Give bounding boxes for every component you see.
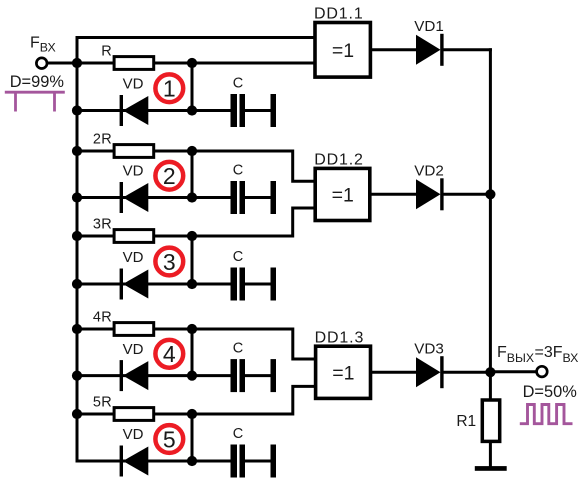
- svg-text:VD: VD: [123, 76, 144, 93]
- svg-text:1: 1: [163, 76, 176, 102]
- wire: capacitor row 3 right lead: [245, 283, 271, 286]
- terminator bar after capacitor row 4: [271, 359, 277, 392]
- diode VD row 3 (triangle): [123, 270, 148, 299]
- diode VD row 4 (cathode bar): [120, 360, 123, 391]
- diode VD row 5 (cathode bar): [120, 446, 123, 477]
- wire: row 1 resistor line from bus to junction: [77, 62, 194, 65]
- wire: vertical link x=192 row 4: [191, 329, 194, 376]
- svg-text:3: 3: [163, 249, 176, 275]
- svg-text:=3F: =3F: [535, 344, 563, 361]
- svg-text:F: F: [30, 35, 40, 52]
- stage number circle 2 (red): [155, 162, 183, 190]
- svg-text:VD: VD: [123, 163, 144, 180]
- node: junction dot on row 1 diode line: [187, 105, 197, 115]
- wire: DD1.3 output to VD3: [371, 371, 418, 374]
- node: left bus dot at row 3 resistor line: [72, 231, 82, 241]
- node: left bus dot at row 3 diode line: [72, 279, 82, 289]
- wire: capacitor row 5 right lead: [245, 460, 271, 463]
- diode VD row 3 (cathode bar): [120, 269, 123, 300]
- node: left bus dot at row 1 resistor line: [72, 58, 82, 68]
- svg-text:=1: =1: [332, 40, 354, 62]
- node: left bus dot at row 2 diode line: [72, 192, 82, 202]
- diode VD3 triangle: [416, 357, 441, 387]
- wire: row 1 resistor line continues to DD1.1 lower input: [192, 62, 317, 65]
- svg-text:F: F: [497, 344, 507, 361]
- capacitor C row 4 plate 1: [231, 359, 238, 392]
- wire: VD3 cathode to right bus: [443, 371, 492, 374]
- stage number circle 4 (red): [155, 340, 183, 368]
- wire: output junction down to R1: [489, 372, 492, 401]
- wire: left vertical bus: [76, 36, 79, 463]
- svg-text:VD3: VD3: [414, 340, 444, 357]
- svg-text:=1: =1: [332, 185, 354, 207]
- input waveform D=99% (purple): [5, 92, 65, 111]
- input terminal Fвх: [36, 58, 47, 69]
- svg-text:C: C: [233, 426, 243, 442]
- wire: R1 to ground: [489, 441, 492, 467]
- capacitor C row 2 plate 1: [231, 181, 238, 214]
- diode VD row 2 (triangle): [123, 183, 148, 212]
- stage number circle 5 (red): [155, 425, 183, 453]
- stage number circle 1 (red): [155, 74, 183, 102]
- wire: row 4 resistor line from bus to junction: [77, 328, 194, 331]
- svg-text:DD1.3: DD1.3: [315, 329, 365, 346]
- wire: vertical link x=192 row 2: [191, 151, 194, 198]
- svg-text:4R: 4R: [93, 309, 112, 325]
- node: junction dot on row 4 diode line: [187, 371, 197, 381]
- diode VD row 1 (triangle): [123, 96, 148, 125]
- wire: row 3 diode line from bus to capacitor: [77, 283, 232, 286]
- terminator bar after capacitor row 5: [271, 445, 277, 478]
- wire: capacitor row 4 right lead: [245, 374, 271, 377]
- svg-text:VD: VD: [123, 341, 144, 358]
- resistor R: [114, 57, 154, 70]
- svg-text:R1: R1: [456, 413, 476, 430]
- wire: row 5 resistor line from bus to junction: [77, 413, 194, 416]
- stage number circle 3 (red): [155, 248, 183, 276]
- diode VD1 cathode bar: [440, 34, 443, 66]
- capacitor C row 5 plate 2: [240, 445, 246, 478]
- XOR gate DD1.3 body: [316, 346, 371, 398]
- wire: row 1 diode line from bus to capacitor: [77, 109, 232, 112]
- node: junction dot on row 2 diode line: [187, 192, 197, 202]
- wire: row 2 diode line from bus to capacitor: [77, 196, 232, 199]
- diode VD3 cathode bar: [440, 356, 443, 388]
- resistor 3R: [114, 230, 154, 243]
- capacitor C row 1 plate 2: [240, 94, 246, 127]
- resistor 4R: [114, 323, 154, 336]
- node: left bus dot at row 5 resistor line: [72, 409, 82, 419]
- wire: top horizontal wire from bus to DD1.1 top input: [76, 36, 317, 39]
- svg-text:3R: 3R: [93, 216, 112, 232]
- node: junction dot VD2 on right bus: [485, 189, 495, 199]
- capacitor C row 5 plate 1: [231, 445, 238, 478]
- ground symbol: [475, 466, 507, 471]
- wire: output junction to output terminal: [490, 370, 536, 373]
- diode VD2 cathode bar: [440, 178, 443, 210]
- node: left bus dot at row 2 resistor line: [72, 146, 82, 156]
- wire: vertical link x=192 row 5: [191, 414, 194, 461]
- output terminal Fвых: [537, 366, 548, 377]
- XOR gate DD1.2 body: [315, 168, 370, 220]
- svg-text:C: C: [233, 249, 243, 265]
- svg-text:=1: =1: [332, 362, 354, 384]
- svg-text:VD: VD: [123, 426, 144, 443]
- svg-text:VD2: VD2: [414, 162, 444, 179]
- diode VD row 5 (triangle): [123, 447, 148, 476]
- svg-text:2: 2: [163, 163, 176, 189]
- node: junction dot at resistor 2R output: [187, 146, 197, 156]
- node: junction dot at resistor 4R output: [187, 324, 197, 334]
- wire: row 5 line to DD1.3 lower input (jog): [192, 386, 317, 414]
- svg-text:5: 5: [163, 426, 176, 452]
- svg-text:ВХ: ВХ: [563, 351, 579, 365]
- node: junction dot at resistor R output: [187, 58, 197, 68]
- node: left bus dot at row 1 diode line: [72, 105, 82, 115]
- diode VD row 4 (triangle): [123, 361, 148, 390]
- capacitor C row 2 plate 2: [240, 181, 246, 214]
- wire: DD1.1 output to VD1: [370, 48, 417, 51]
- wire: right vertical bus: [489, 48, 492, 372]
- resistor 2R: [114, 145, 154, 158]
- wire: input terminal to left bus: [47, 62, 77, 65]
- diode VD row 1 (cathode bar): [120, 95, 123, 126]
- node: left bus dot at row 4 resistor line: [72, 324, 82, 334]
- diode VD2 triangle: [416, 179, 441, 209]
- output waveform D=50% (purple): [520, 405, 573, 424]
- diode VD row 2 (cathode bar): [120, 182, 123, 213]
- capacitor C row 3 plate 2: [240, 268, 246, 301]
- wire: row 3 line to DD1.2 lower input (jog): [192, 208, 317, 236]
- capacitor C row 3 plate 1: [231, 268, 238, 301]
- svg-text:VD: VD: [123, 249, 144, 266]
- wire: DD1.2 output to VD2: [370, 193, 417, 196]
- capacitor C row 4 plate 2: [240, 359, 246, 392]
- svg-text:ВЫХ: ВЫХ: [507, 351, 534, 365]
- wire: row 5 diode line from bus to capacitor: [77, 460, 232, 463]
- svg-text:DD1.2: DD1.2: [314, 152, 364, 169]
- svg-text:C: C: [233, 340, 243, 356]
- wire: VD2 cathode to right bus: [443, 193, 492, 196]
- svg-text:VD1: VD1: [414, 18, 444, 35]
- node: left bus dot at row 4 diode line: [72, 371, 82, 381]
- wire: row 2 resistor line from bus to junction: [77, 150, 194, 153]
- svg-text:2R: 2R: [93, 131, 112, 147]
- node: junction dot on row 5 diode line: [187, 456, 197, 466]
- svg-text:ВХ: ВХ: [40, 40, 56, 54]
- terminator bar after capacitor row 2: [271, 181, 277, 214]
- svg-text:C: C: [233, 75, 243, 91]
- node: output junction dot: [485, 367, 495, 377]
- wire: row 2 line to DD1.2 upper input (jog): [192, 151, 317, 181]
- diode VD1 triangle: [416, 35, 441, 65]
- wire: row 3 resistor line from bus to junction: [77, 235, 194, 238]
- wire: vertical link x=192 row 3: [191, 236, 194, 284]
- wire: VD1 cathode to right bus: [443, 48, 492, 51]
- svg-text:D=50%: D=50%: [523, 383, 577, 401]
- svg-text:5R: 5R: [93, 394, 112, 410]
- svg-text:R: R: [101, 43, 112, 59]
- node: junction dot at resistor 5R output: [187, 409, 197, 419]
- node: junction dot on row 3 diode line: [187, 279, 197, 289]
- wire: capacitor row 1 right lead: [245, 109, 271, 112]
- XOR gate DD1.1 body: [315, 23, 370, 78]
- node: junction dot at resistor 3R output: [187, 231, 197, 241]
- svg-text:C: C: [233, 162, 243, 178]
- wire: row 4 diode line from bus to capacitor: [77, 374, 232, 377]
- svg-text:4: 4: [163, 341, 176, 367]
- wire: capacitor row 2 right lead: [245, 196, 271, 199]
- terminator bar after capacitor row 3: [271, 268, 277, 301]
- resistor R1: [482, 400, 499, 441]
- svg-text:D=99%: D=99%: [10, 73, 64, 91]
- wire: row 4 line to DD1.3 upper input (jog): [192, 329, 317, 359]
- wire: vertical link x=192 row 1: [191, 63, 194, 111]
- capacitor C row 1 plate 1: [231, 94, 238, 127]
- resistor 5R: [114, 408, 154, 421]
- terminator bar after capacitor row 1: [271, 94, 277, 127]
- svg-text:DD1.1: DD1.1: [314, 6, 364, 23]
